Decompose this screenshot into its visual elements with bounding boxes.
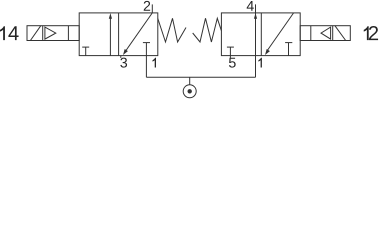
- label 12: [364, 26, 378, 40]
- solenoid S12 compartment divider 1: [310, 26, 312, 41]
- valve V2 right-box exhaust diagonal 4->5: [265, 13, 294, 55]
- valve V2 port 4 / port 1 through wire: [255, 4, 257, 77]
- label port 4: [247, 1, 254, 11]
- label port 5: [229, 58, 236, 68]
- compressed air source dot: [188, 89, 192, 93]
- valve V2 body: [221, 13, 300, 56]
- valve V1 left-box blocked port T: [82, 47, 89, 56]
- valve V1 left-box flow arrow 1->2: [109, 13, 112, 56]
- valve V1 body: [79, 13, 158, 56]
- valve V2 left-box blocked port T: [227, 47, 234, 56]
- valve V2 right-box blocked port T: [285, 43, 292, 56]
- solenoid S12 coil slash: [335, 26, 346, 41]
- solenoid S12 outer box: [300, 26, 350, 41]
- valve V1 right-box blocked port 1 T: [143, 43, 150, 56]
- solenoid S14 compartment divider 1: [42, 26, 44, 41]
- label port 2: [144, 1, 150, 11]
- supply manifold wire: [146, 76, 255, 78]
- valve V2 box divider: [260, 13, 262, 56]
- solenoid S12 compartment divider 2: [332, 26, 334, 41]
- solenoid S14 coil slash: [30, 26, 40, 41]
- valve V2 flow arrow 1->4: [254, 13, 257, 19]
- solenoid S14 outer box: [27, 26, 79, 41]
- solenoid S12 pilot triangle: [321, 27, 331, 39]
- valve V2 port 5 stub: [229, 56, 231, 58]
- compressed air source circle: [183, 85, 196, 98]
- valve V2 return spring: [193, 18, 222, 42]
- valve V1 port 2 stub: [151, 4, 153, 13]
- valve V1 right-box exhaust diagonal 2->3: [123, 13, 152, 55]
- solenoid S14 pilot triangle: [45, 27, 56, 39]
- valve V1 port 1 wire down: [145, 56, 147, 78]
- valve V1 box divider: [118, 13, 120, 56]
- compressed air source stem: [189, 77, 191, 85]
- label port 1 of V1: [153, 58, 156, 68]
- label 14: [0, 26, 19, 40]
- solenoid S14 compartment divider 2: [67, 26, 69, 41]
- valve V1 return spring: [158, 18, 186, 42]
- label port 1 of V2: [258, 58, 261, 68]
- label port 3: [120, 58, 127, 68]
- valve V1 port 3 stub: [120, 56, 122, 58]
